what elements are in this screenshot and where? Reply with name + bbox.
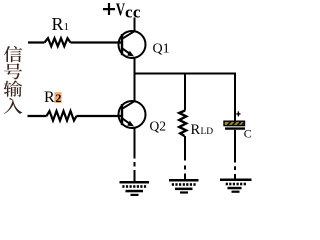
wire Q1 emitter to Q2 collector — [134, 58, 136, 101]
svg-text:Q2: Q2 — [150, 119, 167, 134]
label "入" (signal input text) — [4, 98, 22, 114]
resistor RLD (vertical) — [179, 111, 186, 137]
label "信" (signal input text) — [4, 46, 22, 62]
svg-text:R: R — [44, 89, 55, 106]
wire Q2 emitter to ground (with gap) — [134, 128, 136, 159]
transistor Q2 — [119, 101, 146, 128]
wire junction to RLD and C branch (horizontal) — [134, 73, 237, 75]
svg-text:Q1: Q1 — [153, 42, 170, 57]
wire R1 to Q1 base — [71, 41, 122, 43]
label "号" (signal input text) — [4, 63, 22, 79]
label "输" (signal input text) — [4, 80, 23, 96]
wire branch to capacitor C — [234, 74, 236, 122]
label + (capacitor polarity) — [236, 111, 240, 116]
transistor Q1 — [119, 31, 146, 58]
label R1 — [52, 14, 70, 34]
ground (under Q2 emitter) — [120, 181, 150, 196]
ground (under C) — [220, 179, 252, 193]
label R2 — [44, 89, 62, 106]
svg-text:C: C — [244, 127, 252, 141]
wire input to R1 — [28, 41, 45, 43]
capacitor C bottom plate — [225, 127, 245, 129]
svg-text:2: 2 — [55, 91, 61, 105]
resistor R2 — [47, 111, 77, 121]
wire R2 to Q2 base — [77, 115, 122, 117]
wire C to ground (with gap) — [234, 130, 236, 163]
capacitor C top plate (hatched) — [224, 121, 245, 125]
svg-text:R: R — [52, 14, 64, 34]
wire input to R2 — [28, 115, 47, 117]
svg-text:cc: cc — [125, 3, 141, 22]
resistor R1 — [45, 38, 71, 46]
wire RLD to ground (with gap) — [184, 136, 186, 161]
svg-text:LD: LD — [201, 127, 214, 137]
ground (under RLD) — [169, 179, 199, 194]
svg-text:R: R — [191, 122, 201, 138]
wire branch to RLD — [184, 74, 186, 111]
label +Vcc — [103, 1, 141, 22]
wire Vcc to Q1 collector — [134, 18, 136, 32]
svg-text:1: 1 — [64, 21, 70, 33]
label RLD — [191, 122, 214, 138]
